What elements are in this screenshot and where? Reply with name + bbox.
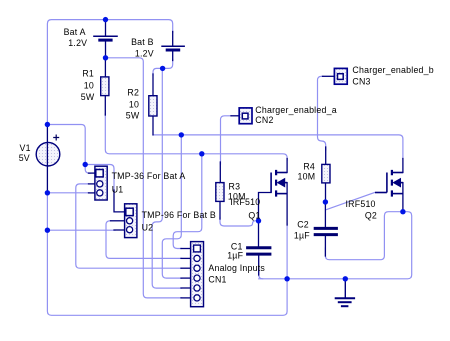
- wire Bat B bottom lead arc to junction: [163, 60, 173, 69]
- wire V1 bottom lead: [46, 166, 48, 193]
- svg-text:CN3: CN3: [352, 77, 370, 87]
- resistor R3: [216, 183, 224, 202]
- svg-text:U2: U2: [142, 223, 154, 233]
- svg-text:Bat A: Bat A: [64, 27, 86, 37]
- svg-text:10M: 10M: [298, 172, 316, 182]
- node U1 supply: [83, 162, 88, 167]
- wire R4 top lead: [325, 147, 327, 164]
- svg-text:1µF: 1µF: [227, 251, 243, 261]
- wire U2 pin 2 left then down to CN1 pin 2: [106, 221, 182, 259]
- svg-text:IRF510: IRF510: [230, 197, 260, 207]
- node Q2 source: [400, 209, 405, 214]
- wire top +5V rail from V1 up across Bat A to Bat B: [47, 20, 172, 126]
- wire R3 bottom S-bend right to Q1 gate node: [220, 218, 259, 227]
- wire R1 top lead: [104, 58, 106, 77]
- battery Bat A: [93, 36, 118, 40]
- svg-text:CN1: CN1: [208, 274, 226, 284]
- svg-text:5W: 5W: [126, 110, 140, 120]
- battery Bat B: [161, 46, 185, 50]
- node Q1 source gnd: [284, 276, 289, 281]
- svg-text:1µF: 1µF: [294, 230, 310, 240]
- wire U1 pin3 lead: [89, 192, 95, 194]
- svg-text:R2: R2: [127, 88, 139, 98]
- wire R4 bottom lead: [325, 183, 327, 202]
- resistor R1: [101, 77, 109, 96]
- node U2 gnd tap: [45, 228, 50, 233]
- svg-text:V1: V1: [20, 143, 31, 153]
- wire CN1 pin5 lead: [181, 287, 191, 289]
- wire Bat A bottom lead: [105, 42, 107, 58]
- svg-text:Q2: Q2: [365, 211, 377, 221]
- port CN3: [334, 68, 347, 84]
- wire junction 201 serpentine down-left-down to CN1 pin 1: [173, 154, 202, 249]
- wire V1 top lead: [46, 125, 48, 143]
- svg-text:TMP-96 For Bat B: TMP-96 For Bat B: [142, 210, 216, 220]
- node Bat B bottom: [160, 66, 165, 71]
- wire CN1 pin6 lead: [181, 297, 191, 299]
- transistor Q2 IRF510: [375, 170, 403, 197]
- wire CN2 left then down to R3 top: [221, 116, 232, 164]
- wire ground rail from C1 right then up to Q2 source node: [259, 212, 412, 279]
- wire R1 bottom lead: [104, 96, 106, 115]
- wire Bat A top lead: [105, 21, 107, 36]
- svg-text:R4: R4: [303, 162, 315, 172]
- wire CN3 lead: [323, 75, 335, 77]
- wire C1 top lead: [258, 221, 260, 247]
- wire Bat B junction down with jog to CN1 pin 5: [152, 68, 181, 288]
- svg-text:5V: 5V: [19, 153, 30, 163]
- wire R2 top lead: [152, 74, 154, 96]
- svg-text:5W: 5W: [81, 92, 95, 102]
- wire U1 supply node right then down to U2 pin 1: [85, 165, 114, 193]
- node R2 bottom junction: [179, 132, 184, 137]
- node R1 bottom junction: [199, 151, 204, 156]
- wire U1 pin1 lead: [89, 172, 95, 174]
- svg-text:R3: R3: [229, 181, 241, 191]
- port CN2: [239, 108, 252, 124]
- wire U1 supply node into U1 pin 1: [85, 165, 90, 174]
- temp sensor U2 connector body: [125, 204, 137, 238]
- capacitor C1: [246, 248, 271, 254]
- wire Bat B junction left into R2 top: [153, 68, 163, 75]
- svg-text:CN2: CN2: [255, 115, 273, 125]
- wire CN1 pin3 lead: [181, 267, 191, 269]
- svg-text:1.2V: 1.2V: [68, 38, 87, 48]
- node V1 plus: [45, 122, 50, 127]
- wire CN1 pin1 lead: [181, 248, 191, 250]
- wire junction 181 serpentine down-left-down to CN1 pin 4: [162, 135, 181, 278]
- svg-text:10: 10: [129, 99, 139, 109]
- svg-text:Charger_enabled_a: Charger_enabled_a: [255, 105, 337, 115]
- node V1 minus: [45, 190, 50, 195]
- svg-text:1.2V: 1.2V: [135, 49, 154, 59]
- wire Q1 gate lead down to node: [259, 193, 272, 221]
- wire Q1 source lead: [286, 183, 288, 225]
- connector CN1 body: [191, 242, 204, 307]
- node R4 C2: [323, 199, 328, 204]
- wire CN1 pin4 lead: [181, 277, 191, 279]
- wire U2 pin3 lead: [114, 229, 125, 231]
- wire V1 minus junction right to U1 pin 3: [47, 192, 89, 194]
- wire C1 bottom lead to ground rail: [259, 268, 263, 279]
- node ground stem: [343, 276, 348, 281]
- wire Q2 source lead: [402, 183, 404, 212]
- wire U1 pin 2 left then down to CN1 pin 3: [76, 184, 182, 268]
- svg-text:Q1: Q1: [248, 211, 260, 221]
- resistor R4: [322, 164, 330, 183]
- svg-text:Bat B: Bat B: [131, 37, 154, 47]
- wire C2 bottom lead: [324, 236, 326, 256]
- wire CN2 lead: [231, 115, 239, 117]
- wire R2 bottom lead: [152, 116, 154, 135]
- temp sensor U1 connector body: [95, 166, 107, 200]
- wire ground junction right to U2 pin 3: [47, 229, 115, 231]
- wire Bat B bottom lead: [172, 51, 174, 60]
- wire CN3 left then down with jog to R4 top: [318, 76, 326, 150]
- svg-text:Charger_enabled_b: Charger_enabled_b: [352, 65, 434, 75]
- wire R3 top lead: [219, 162, 221, 183]
- wire Bat A bottom junction right then down to CN1 pin 6: [106, 58, 182, 298]
- wire U2 pin1 bent lead: [114, 190, 125, 212]
- wire Bat B top lead: [172, 32, 174, 46]
- wire V1 plus rail right then down to U1 supply node: [47, 125, 85, 165]
- transistor Q1 IRF510: [271, 170, 287, 197]
- wire Q2 source node left then down to C2 bottom: [325, 212, 403, 260]
- wire U1 pin2 lead: [89, 183, 95, 185]
- wire Q2 gate diagonal to R4-C2 node: [326, 193, 375, 210]
- svg-text:C2: C2: [297, 219, 309, 229]
- voltage source V1: [36, 135, 60, 167]
- svg-text:TMP-36 For Bat A: TMP-36 For Bat A: [112, 171, 186, 181]
- wire R1 bottom right along y154 to Q1 drain: [105, 114, 287, 160]
- ground: [335, 279, 355, 306]
- node Bat A bottom: [103, 55, 108, 60]
- wire C1 bottom lead: [258, 255, 260, 275]
- wire U2 pin2 lead: [111, 220, 125, 222]
- wire Q1 drain lead: [286, 159, 288, 173]
- capacitor C2: [314, 228, 338, 234]
- svg-text:IRF510: IRF510: [346, 199, 376, 209]
- wire Q1 source down to ground rail: [286, 224, 288, 279]
- wire CN1 pin2 lead: [181, 257, 191, 259]
- svg-text:10: 10: [84, 80, 94, 90]
- svg-text:Analog Inputs: Analog Inputs: [208, 263, 265, 273]
- node Q1 gate: [256, 218, 261, 223]
- wire V1 minus down around bottom to Q1 source node: [47, 193, 287, 315]
- wire R3 bottom lead: [219, 201, 221, 219]
- svg-text:U1: U1: [112, 184, 124, 194]
- resistor R2: [149, 96, 157, 116]
- wire R2 bottom right through junction to Q2 drain: [153, 135, 403, 159]
- node Bat A top: [103, 17, 108, 22]
- wire C2 top lead: [324, 202, 326, 227]
- svg-text:R1: R1: [82, 69, 94, 79]
- wire Q2 drain lead: [402, 159, 404, 173]
